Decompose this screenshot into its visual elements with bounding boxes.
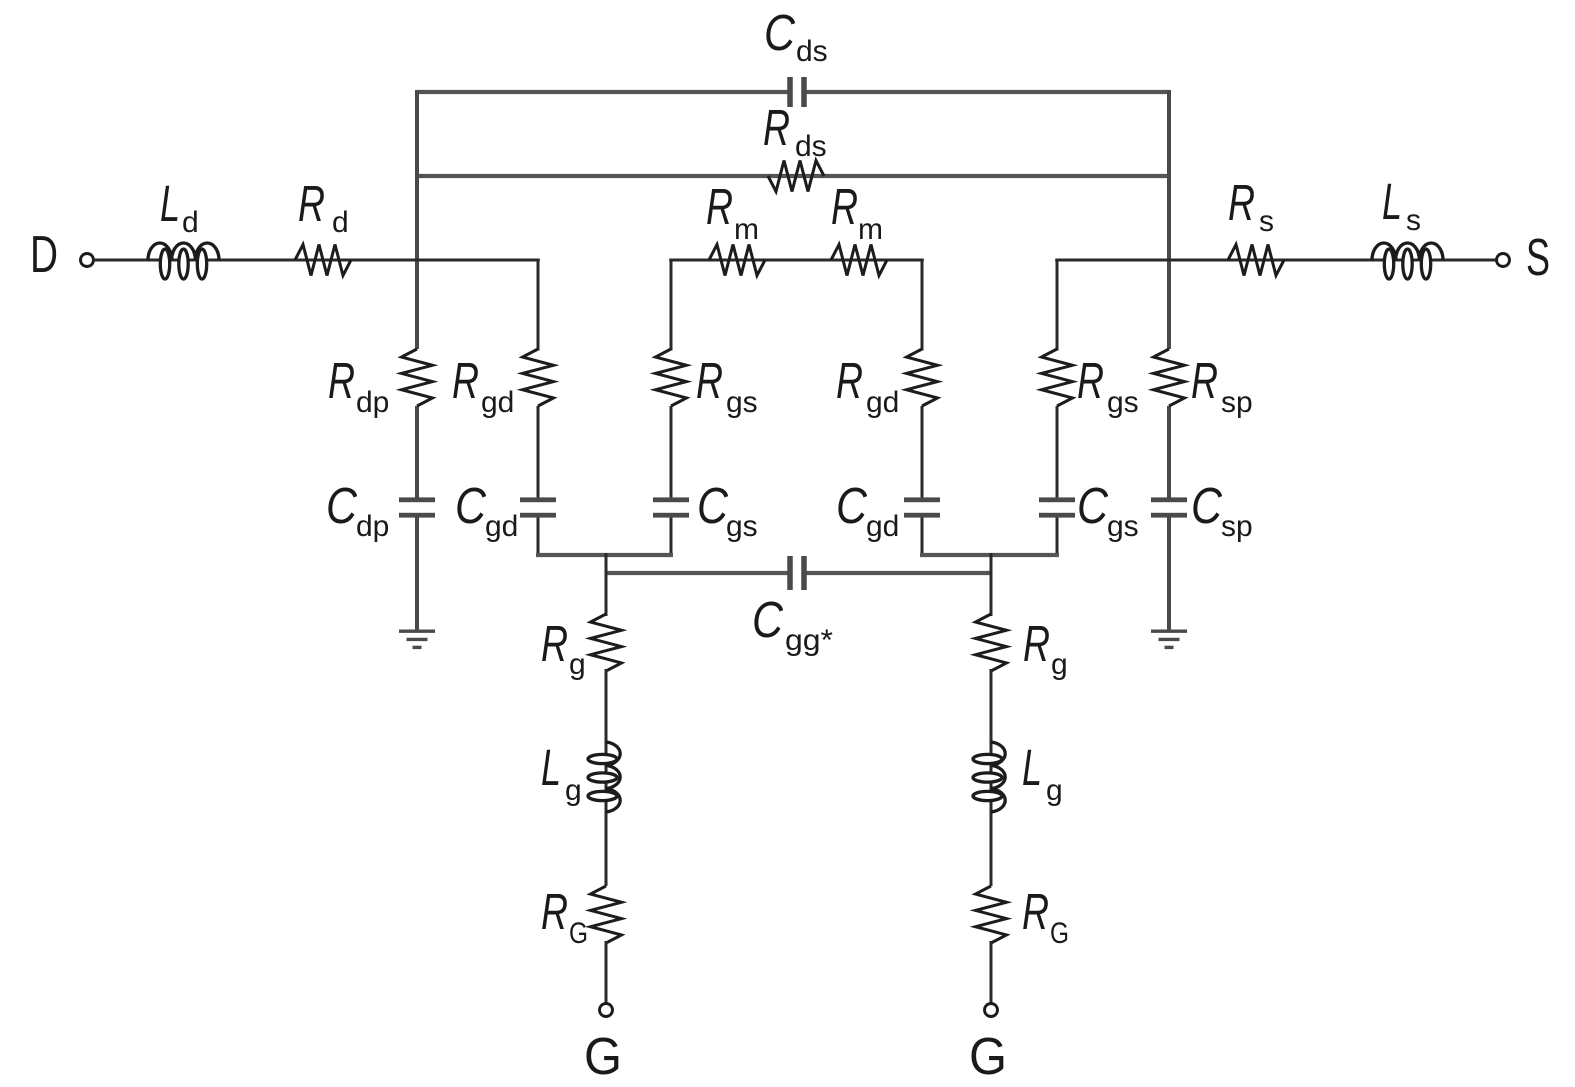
wire middle segment: [669, 259, 924, 262]
label R_m left: [706, 178, 759, 246]
svg-text:s: s: [1259, 205, 1274, 238]
label L_g left: [541, 739, 582, 807]
svg-text:L: L: [160, 175, 180, 232]
capacitor C_gs left: [653, 497, 689, 517]
wire R_ds row: [417, 174, 1167, 178]
label R_s: [1228, 174, 1274, 238]
svg-text:R: R: [1228, 174, 1255, 231]
label G right: [969, 1028, 1007, 1086]
label L_s: [1382, 173, 1421, 237]
resistor R_m right: [831, 245, 887, 276]
capacitor C_gg*: [787, 556, 807, 590]
resistor R_dp: [402, 349, 433, 406]
resistor R_gs left: [656, 349, 687, 406]
svg-text:R: R: [452, 352, 479, 409]
svg-text:C: C: [455, 477, 487, 534]
svg-text:R: R: [541, 615, 568, 672]
wire Rg-Lg-RG left: [605, 669, 608, 886]
resistor R_gd right: [907, 349, 938, 406]
svg-text:d: d: [182, 206, 199, 239]
ground right: [1151, 631, 1187, 647]
svg-text:C: C: [1191, 477, 1223, 534]
svg-text:gs: gs: [726, 386, 758, 419]
svg-text:G: G: [1050, 917, 1069, 950]
label R_gs right: [1077, 352, 1139, 419]
wire right main segment: [1055, 259, 1497, 262]
wire C_gg* row: [606, 571, 991, 575]
wire left capacitor bus: [536, 553, 673, 557]
inductor L_g right: [973, 742, 1005, 812]
svg-text:L: L: [1022, 739, 1042, 796]
svg-text:C: C: [764, 4, 796, 61]
wire gate-right junction: [990, 553, 993, 616]
resistor R_G right: [976, 886, 1007, 943]
inductor L_d: [148, 243, 219, 279]
label L_d: [160, 175, 199, 239]
svg-text:R: R: [541, 883, 568, 940]
svg-text:gd: gd: [485, 510, 518, 543]
resistor R_gs right: [1042, 349, 1073, 406]
svg-text:dp: dp: [356, 510, 389, 543]
svg-text:G: G: [584, 1028, 622, 1086]
label C_gs right: [1077, 477, 1139, 543]
svg-text:R: R: [1022, 883, 1049, 940]
svg-text:L: L: [541, 739, 561, 796]
inductor L_s: [1372, 243, 1443, 279]
svg-text:d: d: [332, 206, 349, 239]
resistor R_G left: [591, 886, 622, 943]
label C_gd right: [836, 477, 899, 543]
svg-text:R: R: [298, 175, 325, 232]
svg-text:dp: dp: [356, 386, 389, 419]
terminal D: [81, 254, 94, 267]
resistor R_s: [1228, 245, 1284, 276]
svg-text:C: C: [697, 477, 729, 534]
svg-text:gs: gs: [1107, 386, 1139, 419]
svg-text:C: C: [1077, 477, 1109, 534]
terminal G right: [985, 1004, 998, 1017]
resistor R_gd left: [523, 349, 554, 406]
label R_G right: [1022, 883, 1069, 950]
svg-text:G: G: [969, 1028, 1007, 1086]
wire branch gd-left down: [537, 260, 540, 557]
capacitor C_gs right: [1039, 497, 1075, 517]
label R_sp: [1191, 352, 1253, 419]
svg-text:L: L: [1382, 173, 1402, 230]
svg-text:R: R: [706, 178, 733, 235]
resistor R_ds: [768, 161, 824, 192]
wire branch gs-left down: [670, 260, 673, 557]
svg-text:R: R: [328, 352, 355, 409]
wire top drain-source link (C_ds row): [417, 90, 1169, 94]
resistor R_m left: [709, 245, 765, 276]
wire branch gs-right down: [1056, 260, 1059, 557]
label R_g left: [541, 615, 586, 681]
svg-text:D: D: [30, 226, 58, 284]
right rail (source node): [1167, 90, 1171, 631]
svg-text:R: R: [1191, 352, 1218, 409]
label R_G left: [541, 883, 588, 950]
svg-text:ds: ds: [796, 35, 828, 68]
svg-text:R: R: [836, 352, 863, 409]
ground left: [399, 631, 435, 647]
label C_sp: [1191, 477, 1253, 543]
capacitor C_gd right: [904, 497, 940, 517]
svg-text:R: R: [1077, 352, 1104, 409]
capacitor C_sp: [1151, 497, 1187, 517]
svg-text:gd: gd: [866, 510, 899, 543]
capacitor C_ds: [787, 77, 807, 107]
inductor L_g left: [588, 742, 620, 812]
svg-text:gs: gs: [726, 510, 758, 543]
svg-text:m: m: [858, 213, 883, 246]
label L_g right: [1022, 739, 1063, 807]
svg-text:C: C: [326, 477, 358, 534]
svg-text:gd: gd: [481, 386, 514, 419]
svg-text:R: R: [831, 178, 858, 235]
label R_g right: [1023, 615, 1068, 681]
svg-text:sp: sp: [1221, 386, 1253, 419]
label R_gd right: [836, 352, 899, 419]
label C_gs left: [697, 477, 758, 543]
label R_d: [298, 175, 349, 239]
terminal G left: [600, 1004, 613, 1017]
svg-text:s: s: [1406, 204, 1421, 237]
capacitor C_dp: [399, 497, 435, 517]
wire right capacitor bus: [920, 553, 1059, 557]
label D: [30, 226, 58, 284]
label R_ds: [763, 99, 827, 163]
capacitor C_gd left: [520, 497, 556, 517]
label R_m right: [831, 178, 883, 246]
svg-text:R: R: [763, 99, 790, 156]
label R_gs left: [696, 352, 758, 419]
svg-text:g: g: [1051, 648, 1068, 681]
wire D lead and left main segment: [93, 259, 540, 262]
svg-text:G: G: [569, 917, 588, 950]
label C_ds: [764, 4, 828, 68]
wire RG-G left: [605, 941, 608, 1004]
wire gate-left junction: [605, 553, 608, 616]
resistor R_g right: [976, 614, 1007, 671]
wire branch gd-right down: [921, 260, 924, 557]
left rail (drain node): [415, 90, 419, 631]
svg-text:C: C: [752, 591, 784, 648]
label C_dp: [326, 477, 389, 543]
svg-text:g: g: [565, 774, 582, 807]
svg-text:m: m: [734, 213, 759, 246]
svg-text:ds: ds: [795, 130, 827, 163]
label C_gg*: [752, 591, 833, 657]
label R_gd left: [452, 352, 514, 419]
label R_dp: [328, 352, 389, 419]
resistor R_sp: [1154, 349, 1185, 406]
svg-text:R: R: [696, 352, 723, 409]
label C_gd left: [455, 477, 518, 543]
svg-text:C: C: [836, 477, 868, 534]
svg-text:S: S: [1526, 229, 1550, 287]
wire RG-G right: [990, 941, 993, 1004]
svg-text:gd: gd: [866, 386, 899, 419]
svg-text:R: R: [1023, 615, 1050, 672]
svg-text:gs: gs: [1107, 510, 1139, 543]
wire Rg-Lg-RG right: [990, 669, 993, 886]
terminal S: [1497, 254, 1510, 267]
svg-text:g: g: [569, 648, 586, 681]
label S: [1526, 229, 1550, 287]
resistor R_g left: [591, 614, 622, 671]
label G left: [584, 1028, 622, 1086]
svg-text:g: g: [1046, 774, 1063, 807]
resistor R_d: [295, 245, 351, 276]
svg-text:gg*: gg*: [785, 624, 833, 657]
svg-text:sp: sp: [1221, 510, 1253, 543]
